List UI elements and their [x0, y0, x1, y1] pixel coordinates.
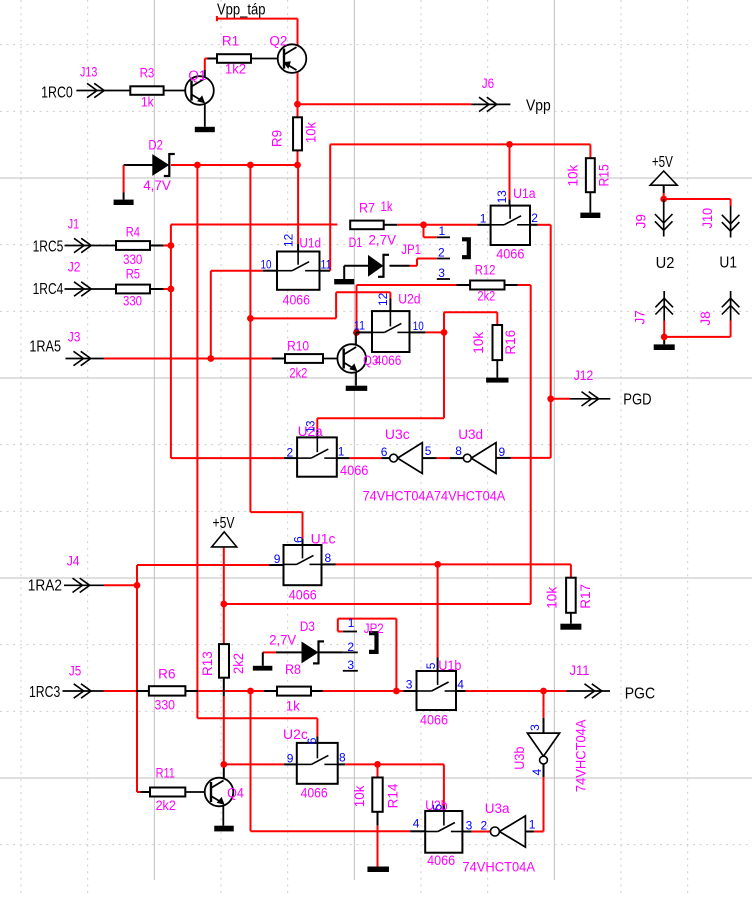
svg-text:J4: J4	[67, 554, 80, 569]
svg-text:4066: 4066	[340, 463, 368, 478]
svg-text:330: 330	[123, 294, 142, 309]
svg-text:2: 2	[287, 445, 294, 459]
wire JP1 pin 1 jog	[424, 225, 437, 238]
node Vpp junction	[294, 101, 301, 108]
svg-text:330: 330	[123, 252, 142, 267]
wire R6 to R8 to U1b pin 3	[185, 690, 416, 692]
power +5V right	[650, 171, 677, 185]
ground R16	[486, 360, 508, 383]
svg-text:10: 10	[413, 319, 424, 333]
wire R12 right to +5V rail	[224, 285, 531, 604]
svg-text:5: 5	[431, 804, 445, 811]
node junction J12 PGD	[547, 395, 554, 402]
wire D1 anode to ground	[344, 266, 368, 279]
wire U1b control pin 5	[437, 564, 439, 671]
svg-text:R13: R13	[200, 651, 215, 676]
wire U2c pin 8 net	[338, 764, 444, 811]
svg-text:U3d: U3d	[458, 427, 483, 442]
connector JP1	[437, 237, 469, 279]
wire D1 cathode to JP1 pin 2	[390, 259, 437, 266]
diode D1 zener 2.7V	[369, 254, 390, 278]
svg-text:4066: 4066	[283, 292, 310, 307]
svg-text:5: 5	[425, 444, 432, 458]
svg-text:R1: R1	[222, 34, 239, 49]
resistor R4	[116, 241, 150, 250]
resistor R1	[217, 54, 251, 63]
svg-text:8: 8	[325, 551, 332, 565]
svg-text:U3a: U3a	[485, 801, 510, 816]
wire J7 J8 to ground	[664, 321, 730, 345]
svg-text:2,7V: 2,7V	[269, 633, 296, 648]
svg-text:3: 3	[466, 819, 473, 833]
svg-text:2k2: 2k2	[231, 653, 246, 674]
svg-text:11: 11	[354, 318, 365, 332]
svg-text:2k2: 2k2	[156, 798, 176, 813]
wire U3d pin 9 to PGD rail	[496, 457, 551, 459]
svg-text:J12: J12	[574, 368, 594, 383]
svg-text:R11: R11	[156, 766, 175, 781]
resistor R7	[350, 221, 384, 230]
op U1b 4066 switch	[417, 671, 457, 710]
resistor R13	[219, 644, 229, 678]
svg-text:3: 3	[528, 724, 542, 731]
svg-text:6: 6	[292, 536, 306, 543]
svg-text:R3: R3	[140, 66, 155, 81]
op U3c inverter	[390, 443, 423, 474]
wire J5 to R6	[104, 690, 149, 692]
node junction U2d pin 10	[441, 329, 448, 336]
op U2d 4066 switch	[372, 311, 410, 352]
transistor Q2	[251, 44, 306, 73]
wire U2d pin 11 stub	[357, 331, 373, 333]
svg-text:U2d: U2d	[398, 292, 420, 307]
ground R17	[560, 613, 581, 630]
op U3b inverter	[527, 733, 559, 764]
transistor Q1	[164, 76, 214, 127]
port J4	[64, 578, 104, 592]
svg-text:R17: R17	[578, 584, 593, 609]
svg-text:U2: U2	[656, 255, 675, 272]
svg-text:D2: D2	[148, 138, 163, 153]
wire R4 to junction	[150, 245, 171, 247]
svg-text:Vpp_táp: Vpp_táp	[217, 2, 266, 19]
svg-text:4066: 4066	[301, 785, 328, 800]
node D2 net junction at R9	[294, 162, 301, 169]
port J3	[66, 351, 105, 365]
ground Q1 emitter	[195, 127, 215, 132]
wire D2 anode to ground	[124, 165, 153, 200]
transistor Q3	[323, 333, 366, 386]
wire junction to R9 top	[297, 104, 299, 117]
node junction U1a control	[506, 141, 513, 148]
svg-text:U3c: U3c	[385, 427, 410, 442]
wire U2d pin 10 net	[317, 312, 497, 437]
svg-text:12: 12	[376, 292, 390, 306]
port J1	[65, 238, 117, 252]
resistor R3	[130, 86, 163, 95]
wire J6 Vpp	[298, 103, 472, 105]
svg-text:Q1: Q1	[188, 68, 206, 83]
svg-text:1: 1	[348, 616, 355, 630]
svg-text:3: 3	[347, 658, 354, 672]
wire D2 net to U1d control pin 12	[297, 165, 299, 252]
wire junction to U2c pin 9	[224, 763, 297, 765]
svg-text:2: 2	[481, 819, 488, 833]
wire R7 right to U1a pin 1	[384, 224, 491, 226]
wire R12 left to U2d pin 11	[357, 285, 471, 333]
wire U1a pin 2 to PGD rail	[530, 225, 551, 458]
svg-text:J2: J2	[68, 260, 81, 275]
power +5V left	[212, 532, 237, 547]
svg-text:4: 4	[457, 678, 464, 692]
svg-text:D1: D1	[349, 235, 363, 250]
svg-text:1RC4: 1RC4	[33, 281, 64, 298]
port J11	[566, 684, 610, 698]
port J12	[570, 392, 610, 406]
op U1a 4066 switch	[491, 206, 530, 245]
node junction Q4 collector	[220, 761, 227, 768]
wire +5V stem through R13	[223, 547, 225, 644]
resistor R5	[116, 285, 150, 294]
node junction R4	[168, 242, 175, 249]
node junction J11 PGC	[540, 688, 547, 695]
svg-text:U1c: U1c	[311, 532, 336, 547]
wire U3c pin 5 to U3d pin 8	[422, 457, 463, 459]
svg-text:12: 12	[282, 233, 296, 247]
svg-text:1RC3: 1RC3	[29, 684, 60, 701]
svg-text:+5V: +5V	[213, 515, 236, 532]
svg-text:3: 3	[438, 266, 445, 280]
svg-text:8: 8	[339, 751, 346, 765]
port J5	[63, 684, 104, 698]
op U1d 4066 switch	[277, 252, 320, 290]
svg-text:2k2: 2k2	[289, 366, 307, 381]
svg-text:6: 6	[305, 737, 319, 744]
wire R14 bottom to ground	[377, 812, 379, 867]
svg-text:74VHCT04A74VHCT04A: 74VHCT04A74VHCT04A	[363, 488, 506, 503]
diode D2 zener 4.7V	[153, 153, 175, 177]
svg-text:1: 1	[529, 818, 536, 832]
svg-text:13: 13	[495, 190, 509, 203]
svg-text:Q2: Q2	[269, 34, 287, 49]
svg-text:R4: R4	[126, 225, 141, 240]
svg-text:4066: 4066	[420, 713, 448, 728]
svg-text:J8: J8	[698, 311, 713, 325]
ground D1	[334, 279, 354, 284]
svg-text:J6: J6	[482, 76, 494, 91]
wire J3 net to R10	[104, 358, 285, 360]
wire rail x171 R7 to U2a pin 2	[171, 225, 338, 459]
wire D2 cathode net	[171, 164, 298, 166]
wire R5 to junction	[150, 288, 171, 290]
svg-text:2k2: 2k2	[478, 288, 496, 303]
svg-text:1RC0: 1RC0	[41, 85, 73, 102]
port J6	[471, 97, 510, 111]
transistor Q4	[185, 778, 233, 826]
svg-text:74VHCT04A: 74VHCT04A	[573, 720, 588, 793]
node junction U2d pin 11	[353, 329, 360, 336]
wire U2b pin 3 to U3a input	[462, 764, 543, 831]
resistor R9	[293, 117, 302, 150]
resistor R16	[493, 325, 503, 360]
svg-text:R5: R5	[126, 266, 140, 281]
port J7	[655, 291, 673, 321]
wire U2a pin 1 to U3c output	[337, 457, 390, 459]
wire U1d pin 11 to R15 net	[320, 144, 591, 270]
resistor R15	[586, 158, 595, 192]
svg-text:U1a: U1a	[513, 186, 536, 201]
node junction J3	[207, 355, 214, 362]
svg-text:Q4: Q4	[227, 786, 244, 801]
svg-text:J3: J3	[68, 330, 81, 345]
op U3a inverter	[490, 816, 525, 847]
svg-text:JP2: JP2	[364, 621, 384, 636]
wire J12 tap	[551, 398, 570, 400]
svg-text:+5V: +5V	[652, 154, 673, 171]
resistor R8	[277, 687, 311, 696]
wire R13 bottom to Q4 collector	[223, 678, 225, 781]
svg-text:J10: J10	[700, 208, 715, 229]
ground J7 J8	[654, 344, 675, 350]
svg-text:2: 2	[531, 211, 538, 225]
svg-text:1k2: 1k2	[225, 62, 246, 77]
port J8	[722, 291, 740, 321]
svg-text:4: 4	[413, 817, 420, 831]
svg-text:9: 9	[287, 751, 294, 765]
svg-text:1: 1	[439, 224, 446, 238]
node junction JP1 tap	[420, 221, 427, 228]
svg-text:4066: 4066	[427, 853, 455, 868]
svg-text:R6: R6	[158, 666, 175, 681]
svg-text:J13: J13	[80, 65, 97, 80]
svg-text:10k: 10k	[565, 164, 580, 186]
port J9	[655, 199, 673, 237]
wire U1d pin 10 to J3 net	[211, 271, 277, 359]
port J13	[76, 83, 130, 97]
svg-text:U3b: U3b	[512, 747, 527, 770]
ground D3	[253, 666, 273, 671]
node junction R14 top	[374, 761, 381, 768]
svg-text:D3: D3	[300, 619, 315, 634]
node D2 net junction x250	[247, 162, 254, 169]
svg-text:1RC5: 1RC5	[33, 239, 64, 256]
resistor R17	[566, 578, 576, 613]
svg-text:1k: 1k	[286, 699, 301, 714]
svg-text:JP1: JP1	[401, 242, 421, 257]
svg-text:PGD: PGD	[623, 392, 651, 409]
wire branch to U2d control pin 12	[250, 292, 390, 318]
svg-text:1RA5: 1RA5	[29, 338, 61, 355]
ground R15	[580, 192, 600, 218]
wire JP2 pin 1 net	[338, 619, 397, 691]
wire Vpp_tap net	[217, 16, 298, 47]
wire rail x250 R6 to U2b pin 4	[251, 691, 426, 831]
svg-text:4,7V: 4,7V	[143, 178, 171, 193]
svg-text:1RA2: 1RA2	[28, 577, 62, 594]
connector JP2	[343, 632, 377, 671]
svg-text:PGC: PGC	[625, 686, 655, 703]
node junction U1b control tap	[434, 561, 441, 568]
svg-text:10: 10	[261, 258, 272, 272]
svg-text:2: 2	[347, 640, 354, 654]
svg-text:R12: R12	[475, 263, 496, 278]
svg-text:9: 9	[274, 552, 281, 566]
resistor R14	[372, 778, 382, 812]
svg-text:13: 13	[304, 420, 318, 432]
svg-text:10k: 10k	[545, 587, 560, 609]
resistor R11	[150, 788, 185, 797]
diode D3 zener 2.7V	[302, 640, 324, 664]
svg-text:J11: J11	[570, 663, 590, 678]
wire rail x250 to U1c control	[250, 165, 302, 545]
wire D3 anode to ground	[263, 652, 302, 665]
wire U1b pin 4 to J11	[456, 690, 566, 692]
op U2c 4066 switch	[297, 743, 338, 784]
svg-text:1k: 1k	[141, 95, 154, 110]
svg-text:4066: 4066	[375, 353, 402, 368]
svg-text:U1: U1	[719, 255, 737, 272]
svg-text:R10: R10	[287, 339, 309, 354]
ground R14	[367, 867, 389, 873]
svg-text:2: 2	[438, 245, 445, 259]
op U1c 4066 switch	[284, 545, 322, 585]
svg-text:4066: 4066	[289, 587, 317, 602]
resistor R6	[149, 686, 186, 695]
svg-text:5: 5	[424, 662, 438, 669]
wire U3b input from J11 net	[543, 691, 545, 733]
svg-text:1k: 1k	[381, 199, 393, 214]
wire rail x197 down to U2c control	[197, 165, 317, 743]
wire D3 cathode to JP2 pin 2	[320, 651, 343, 653]
svg-text:J9: J9	[633, 214, 648, 228]
svg-text:R16: R16	[503, 330, 518, 355]
node junction J4	[134, 582, 141, 589]
node junction x250 y318	[247, 315, 254, 322]
ground D2	[114, 200, 134, 205]
svg-text:U1b: U1b	[438, 658, 461, 673]
svg-text:J5: J5	[69, 663, 81, 678]
svg-text:4066: 4066	[496, 247, 524, 262]
svg-text:9: 9	[499, 445, 506, 459]
wire U1c pin 8 to R17	[322, 564, 571, 577]
wire Q1 collector to R1	[205, 59, 217, 79]
wire Q2 emitter to Vpp junction	[297, 72, 299, 105]
svg-text:J1: J1	[68, 217, 79, 232]
svg-text:10k: 10k	[304, 122, 319, 143]
op U2b 4066 switch	[425, 811, 462, 853]
svg-text:J7: J7	[632, 310, 647, 324]
svg-text:R8: R8	[285, 662, 301, 677]
ground Q3	[346, 386, 368, 391]
svg-text:U1d: U1d	[299, 236, 321, 251]
svg-text:2,7V: 2,7V	[369, 233, 397, 248]
svg-text:R9: R9	[270, 130, 285, 147]
svg-text:10k: 10k	[471, 332, 486, 354]
svg-text:1: 1	[480, 212, 487, 226]
node junction R6 output	[247, 688, 254, 695]
port J2	[65, 282, 117, 296]
svg-text:R7: R7	[359, 201, 375, 216]
svg-text:4: 4	[530, 769, 544, 776]
svg-text:R14: R14	[385, 783, 400, 808]
svg-text:74VHCT04A: 74VHCT04A	[462, 860, 535, 875]
op U2a 4066 switch	[297, 437, 337, 476]
svg-text:Vpp: Vpp	[526, 98, 551, 115]
svg-text:330: 330	[155, 698, 176, 713]
svg-text:3: 3	[406, 678, 413, 692]
svg-text:10k: 10k	[352, 785, 367, 807]
resistor R10	[285, 354, 323, 363]
node junction JP2 pin1 net	[393, 688, 400, 695]
wire +5V right to J9 J10	[664, 185, 731, 206]
svg-text:1: 1	[338, 445, 345, 459]
svg-text:6: 6	[381, 445, 388, 459]
ground Q4	[214, 826, 234, 832]
op U3d inverter	[463, 443, 496, 474]
node junction +5V J9	[660, 196, 667, 203]
resistor R12	[470, 281, 504, 290]
svg-text:11: 11	[321, 258, 332, 272]
node junction J7 ground	[661, 334, 668, 341]
wire J4 net	[104, 565, 284, 792]
node D2 net junction x197	[194, 162, 201, 169]
port J10	[722, 206, 740, 238]
svg-text:R15: R15	[597, 164, 612, 186]
wire R9 bottom to D2 net	[297, 150, 299, 165]
svg-text:8: 8	[455, 444, 462, 458]
node junction +5V R13	[220, 601, 227, 608]
node junction R5	[168, 286, 175, 293]
